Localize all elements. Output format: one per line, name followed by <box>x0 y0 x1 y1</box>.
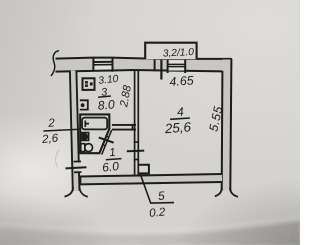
svg-text:4.65: 4.65 <box>169 73 194 89</box>
entrance door rung top <box>74 160 81 162</box>
bathroom outline <box>80 114 109 153</box>
underline room 1 <box>106 159 122 160</box>
underline room 4 <box>170 118 190 119</box>
svg-text:2: 2 <box>47 116 56 130</box>
paper bottom crease line <box>0 221 300 236</box>
window W1 bars <box>93 61 112 63</box>
wall: left exterior wall band <box>70 71 80 191</box>
window W1 left jamb <box>92 58 94 71</box>
entrance door opening: light gap <box>74 163 81 172</box>
wall: kitchen/hall divider (horizontal double line) <box>112 124 136 126</box>
svg-text:6.0: 6.0 <box>102 159 120 175</box>
paper bottom shadow below crease <box>0 222 300 245</box>
svg-text:2,6: 2,6 <box>40 132 59 146</box>
bathtub faucet <box>85 121 89 128</box>
balcony door leaf line <box>160 53 162 80</box>
bathroom door leaf tick <box>99 138 114 143</box>
leader line room 2 <box>43 129 79 131</box>
svg-text:4: 4 <box>176 104 184 119</box>
svg-text:2.88: 2.88 <box>118 84 134 109</box>
wall: right exterior wall band <box>222 60 232 191</box>
svg-text:5: 5 <box>157 188 165 203</box>
left wall bottom break flare <box>65 188 88 197</box>
washbasin <box>81 133 89 141</box>
balcony outline <box>145 43 196 60</box>
door leaf tick (hall-room4 door) <box>127 150 144 153</box>
wall break symbol at left end of top wall <box>51 51 59 76</box>
window W1 right jamb <box>112 58 114 72</box>
bottom wall top edge <box>80 174 222 177</box>
right wall outer edge <box>230 59 231 191</box>
underline room 3 <box>98 96 111 97</box>
door rung bottom (hall-room4 door) <box>134 159 139 161</box>
bottom wall bottom edge <box>80 182 222 184</box>
kitchen sink <box>80 100 88 109</box>
door rung top (hall-room4 door) <box>134 141 139 143</box>
svg-text:3.10: 3.10 <box>98 74 119 87</box>
wire: top exterior wall band fill <box>56 59 232 72</box>
bottom wall left end cap <box>79 177 81 185</box>
svg-text:8.0: 8.0 <box>97 97 115 112</box>
paper crease arc at left <box>56 149 60 168</box>
kitchen stove <box>83 78 95 90</box>
left wall inner edge <box>76 71 79 191</box>
wall: top wall top edge <box>56 58 232 59</box>
svg-text:25,6: 25,6 <box>163 119 192 136</box>
entrance door rung bottom <box>74 171 81 173</box>
wall: top wall bottom edge <box>56 70 223 72</box>
toilet <box>81 144 85 152</box>
svg-text:1: 1 <box>109 147 117 160</box>
bathtub <box>82 118 107 130</box>
jamb in kitchen/hall divider <box>132 124 134 131</box>
svg-text:0.2: 0.2 <box>149 205 167 219</box>
diagonal rungs <box>107 136 110 137</box>
window W2 double bars <box>168 63 186 65</box>
entrance door leaf tick <box>66 167 87 168</box>
wall: kitchen/room4 divider (vertical double line) <box>134 70 136 176</box>
leader line to label 5 <box>140 174 174 203</box>
paper bottom crease highlight <box>0 217 300 231</box>
closet (room 5) outline <box>139 165 149 174</box>
left wall outer edge <box>70 71 73 191</box>
wall end cap left of balcony door <box>154 59 156 71</box>
window W1 (kitchen window): light interior <box>94 60 112 70</box>
svg-text:3,2/1.0: 3,2/1.0 <box>163 47 195 60</box>
window W2 (room 4 window): light interior <box>169 61 185 71</box>
wall: bottom exterior wall band <box>80 174 222 184</box>
right wall bottom break flare <box>215 188 238 197</box>
bathroom diagonal outer line <box>102 130 112 155</box>
window W2 right jamb <box>184 59 186 73</box>
right wall inner edge <box>221 71 224 191</box>
window W2 left jamb <box>167 59 169 73</box>
